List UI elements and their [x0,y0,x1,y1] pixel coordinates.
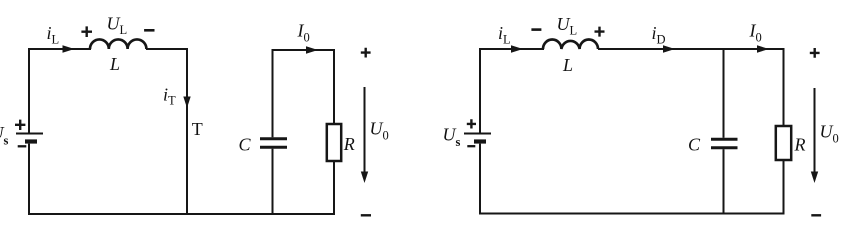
wire: capacitor branch lower (right) [723,149,725,214]
resistor R (left) [327,124,341,161]
current arrow i_L (right) [511,45,523,52]
wire: resistor branch lower (left) [333,161,335,215]
label - (right battery) [467,145,475,147]
svg-text:C: C [239,135,252,155]
svg-text:C: C [688,134,701,154]
svg-text:iL: iL [498,23,511,47]
wire: capacitor branch upper (right) [723,49,725,138]
label - (right output) [811,214,821,216]
voltage arrow U_0 (left) [361,87,368,183]
svg-text:I0: I0 [297,21,310,45]
wire: left vertical, source branch upper segment (right circuit) [479,48,481,133]
battery Us (left source) [16,134,43,142]
resistor R (right) [776,126,791,160]
label + (right output) [810,48,820,58]
wire: resistor branch upper (right) [783,49,785,126]
wire: left vertical, below battery to bottom rail [28,144,30,215]
voltage arrow U_0 (right) [811,88,818,183]
label - (left output) [361,214,371,216]
svg-text:UL: UL [557,14,578,38]
svg-text:iT: iT [163,85,176,108]
label + (left output) [361,48,371,58]
svg-text:U0: U0 [370,119,389,143]
wire: top rail, source corner to inductor [28,48,91,50]
wire: switch branch T vertical [186,49,188,215]
label + (U_L polarity, left circuit) [81,26,92,37]
svg-text:I0: I0 [749,21,762,45]
wire: resistor branch lower (right) [783,160,785,215]
label + (U_L polarity, right circuit) [595,27,605,37]
svg-text:U0: U0 [820,122,839,146]
label - (left battery) [18,145,27,147]
svg-text:Us: Us [0,123,9,148]
wire: left vertical, source branch upper segment [28,48,30,133]
capacitor C (right) [711,139,738,148]
wire: bottom rail (right circuit) [479,213,785,215]
current arrow i_L (left) [63,45,75,52]
wire: top rail, inductor to switch node [146,48,188,50]
label - (U_L polarity, left circuit) [144,29,154,32]
wire: top rail, inductor to output corner (right circuit) [598,48,785,50]
wire: bottom rail (left circuit) [28,213,335,215]
svg-text:Us: Us [443,125,461,150]
wire: capacitor branch lower (left) [272,149,274,215]
svg-text:UL: UL [107,14,128,38]
svg-text:T: T [192,119,203,139]
current arrow i_T [183,97,190,109]
svg-text:iL: iL [47,23,60,47]
wire: left vertical, below battery to bottom rail (right circuit) [479,144,481,215]
wire: capacitor branch upper (left) [272,49,274,137]
wire: resistor branch upper (left) [333,49,335,124]
battery Us (right source) [464,134,491,142]
wire: output loop top rail C to R [273,49,336,51]
capacitor C (left) [260,139,287,148]
label + (left battery) [15,120,25,130]
svg-text:R: R [794,134,806,154]
svg-text:L: L [109,54,120,74]
current arrow i_D [663,45,675,52]
current arrow I_0 (right) [757,45,769,52]
wire: top rail, source corner to inductor (right circuit) [479,48,544,50]
svg-text:L: L [562,55,573,75]
svg-text:R: R [343,134,355,154]
label - (U_L polarity, right circuit) [531,28,541,31]
inductor L (right) [543,39,598,49]
label + (right battery) [467,119,476,128]
inductor L (left) [90,39,146,49]
current arrow I_0 (left) [306,46,318,53]
svg-text:iD: iD [652,23,666,47]
